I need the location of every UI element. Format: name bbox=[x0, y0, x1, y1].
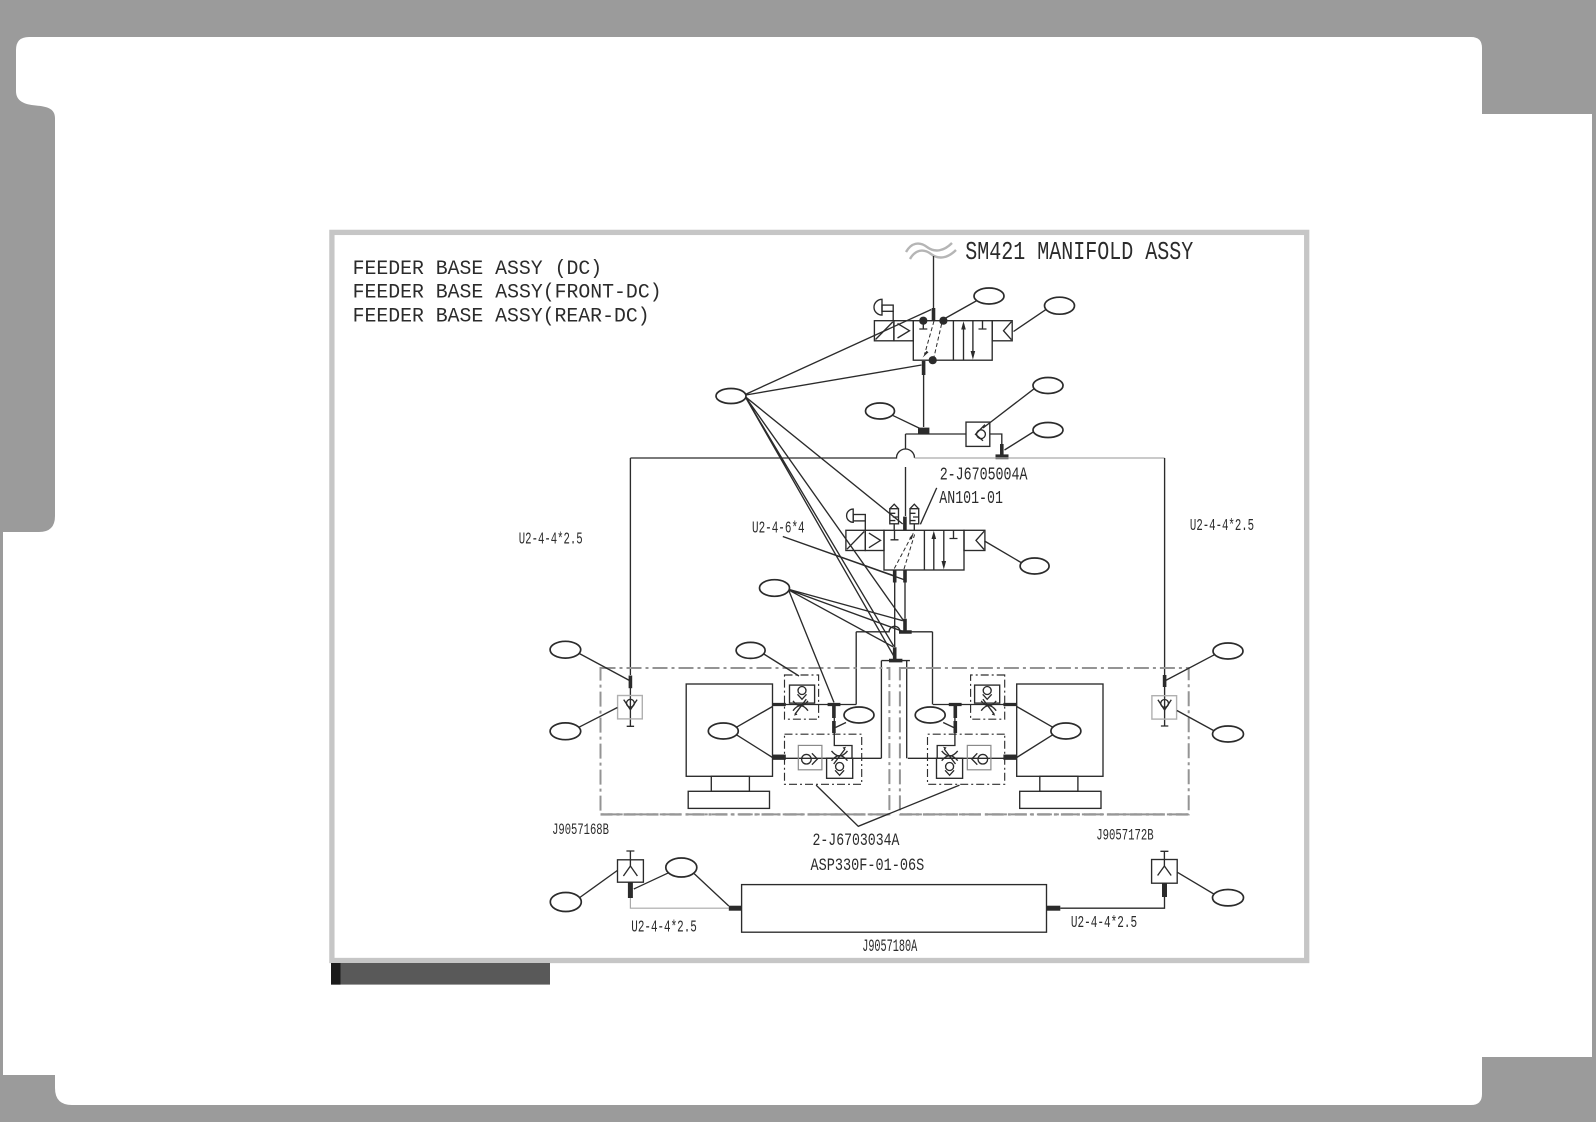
svg-text:J9057172B: J9057172B bbox=[1096, 827, 1153, 845]
svg-text:J9057168B: J9057168B bbox=[552, 821, 609, 839]
svg-text:ASP330F-01-06S: ASP330F-01-06S bbox=[811, 856, 925, 876]
svg-text:U2-4-4*2.5: U2-4-4*2.5 bbox=[519, 530, 583, 549]
svg-text:J9057180A: J9057180A bbox=[862, 938, 917, 957]
svg-text:FEEDER BASE ASSY (DC): FEEDER BASE ASSY (DC) bbox=[353, 258, 602, 281]
svg-text:SM421 MANIFOLD ASSY: SM421 MANIFOLD ASSY bbox=[965, 237, 1193, 267]
svg-text:U2-4-4*2.5: U2-4-4*2.5 bbox=[631, 918, 697, 937]
svg-text:U2-4-4*2.5: U2-4-4*2.5 bbox=[1071, 913, 1137, 932]
svg-text:AN101-01: AN101-01 bbox=[939, 488, 1003, 509]
svg-text:2-J6703034A: 2-J6703034A bbox=[813, 831, 900, 851]
svg-text:FEEDER BASE ASSY(REAR-DC): FEEDER BASE ASSY(REAR-DC) bbox=[353, 306, 650, 329]
svg-text:U2-4-6*4: U2-4-6*4 bbox=[752, 518, 805, 537]
svg-text:U2-4-4*2.5: U2-4-4*2.5 bbox=[1190, 516, 1254, 535]
svg-text:FEEDER BASE ASSY(FRONT-DC): FEEDER BASE ASSY(FRONT-DC) bbox=[353, 282, 662, 305]
svg-text:2-J6705004A: 2-J6705004A bbox=[940, 465, 1028, 486]
